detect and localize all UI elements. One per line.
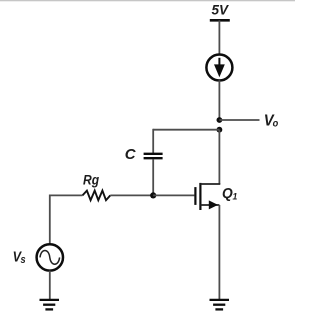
ground left — [40, 300, 60, 310]
wire Q1 source down to ground — [218, 205, 220, 299]
wire resistor to gate node — [110, 194, 153, 196]
power supply bar 5V — [210, 19, 230, 22]
wire capacitor to gate node — [152, 159, 154, 195]
wire gate node to Q1 gate — [153, 194, 194, 196]
wire current source to node Vo — [218, 80, 220, 120]
svg-text:C: C — [125, 146, 137, 163]
resistor Rg — [83, 191, 111, 201]
node junction dot at drain branch — [217, 127, 223, 133]
node gate junction dot — [150, 192, 156, 198]
svg-text:5V: 5V — [212, 3, 230, 18]
wire Vs corner up to resistor Rg — [50, 195, 83, 243]
transistor Q1 — [195, 183, 220, 210]
wire node to Vo terminal — [219, 119, 259, 121]
wire node to capacitor branch horizontal — [153, 129, 219, 131]
svg-text:Vo: Vo — [264, 112, 279, 130]
top border frame line — [0, 0, 295, 1]
wire Vs to ground — [49, 271, 51, 299]
node junction dot at Vo — [217, 117, 223, 123]
svg-text:Q1: Q1 — [222, 185, 237, 202]
wire capacitor branch vertical upper — [152, 129, 154, 153]
current source I1 — [206, 55, 232, 81]
svg-text:Vs: Vs — [13, 247, 26, 266]
ground right — [210, 300, 230, 310]
source Vs — [37, 244, 63, 270]
capacitor C — [144, 154, 163, 158]
svg-text:Rg: Rg — [83, 172, 99, 188]
wire node to Q1 drain vertical — [218, 130, 220, 184]
wire supply bar to current source — [218, 20, 220, 55]
